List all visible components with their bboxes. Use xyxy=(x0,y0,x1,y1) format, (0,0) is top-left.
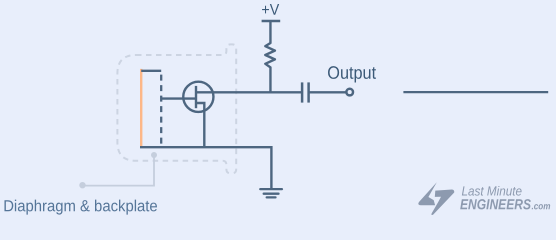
logo mark (lightning bolt) xyxy=(418,182,454,215)
drain-output wire xyxy=(196,91,301,93)
diaphragm (orange plate) xyxy=(140,69,142,147)
+V supply bar xyxy=(262,20,281,23)
gate wire xyxy=(161,97,196,99)
label connector (diaphragm & backplate pointer) xyxy=(83,155,154,185)
bottom wire to ground xyxy=(140,147,271,189)
wire capacitor to output terminal xyxy=(309,91,346,93)
svg-text:ENGINEERS: ENGINEERS xyxy=(460,197,531,213)
output terminal xyxy=(346,89,353,96)
connector dot lower xyxy=(79,182,85,188)
resistor R1 with supply rail xyxy=(265,21,275,93)
svg-text:.com: .com xyxy=(531,201,550,212)
svg-text:Diaphragm & backplate: Diaphragm & backplate xyxy=(3,198,158,215)
svg-text:+V: +V xyxy=(261,2,279,19)
backplate (dashed plate) xyxy=(160,71,162,147)
right-side wire xyxy=(403,91,548,93)
ground xyxy=(260,189,282,197)
diaphragm top link wire xyxy=(141,70,161,72)
transistor Q1 (JFET) xyxy=(183,82,213,147)
connector dot upper xyxy=(151,152,157,158)
svg-text:Output: Output xyxy=(327,63,376,83)
microphone capsule outline (dashed) xyxy=(117,44,236,173)
coupling capacitor C1 xyxy=(301,82,304,102)
